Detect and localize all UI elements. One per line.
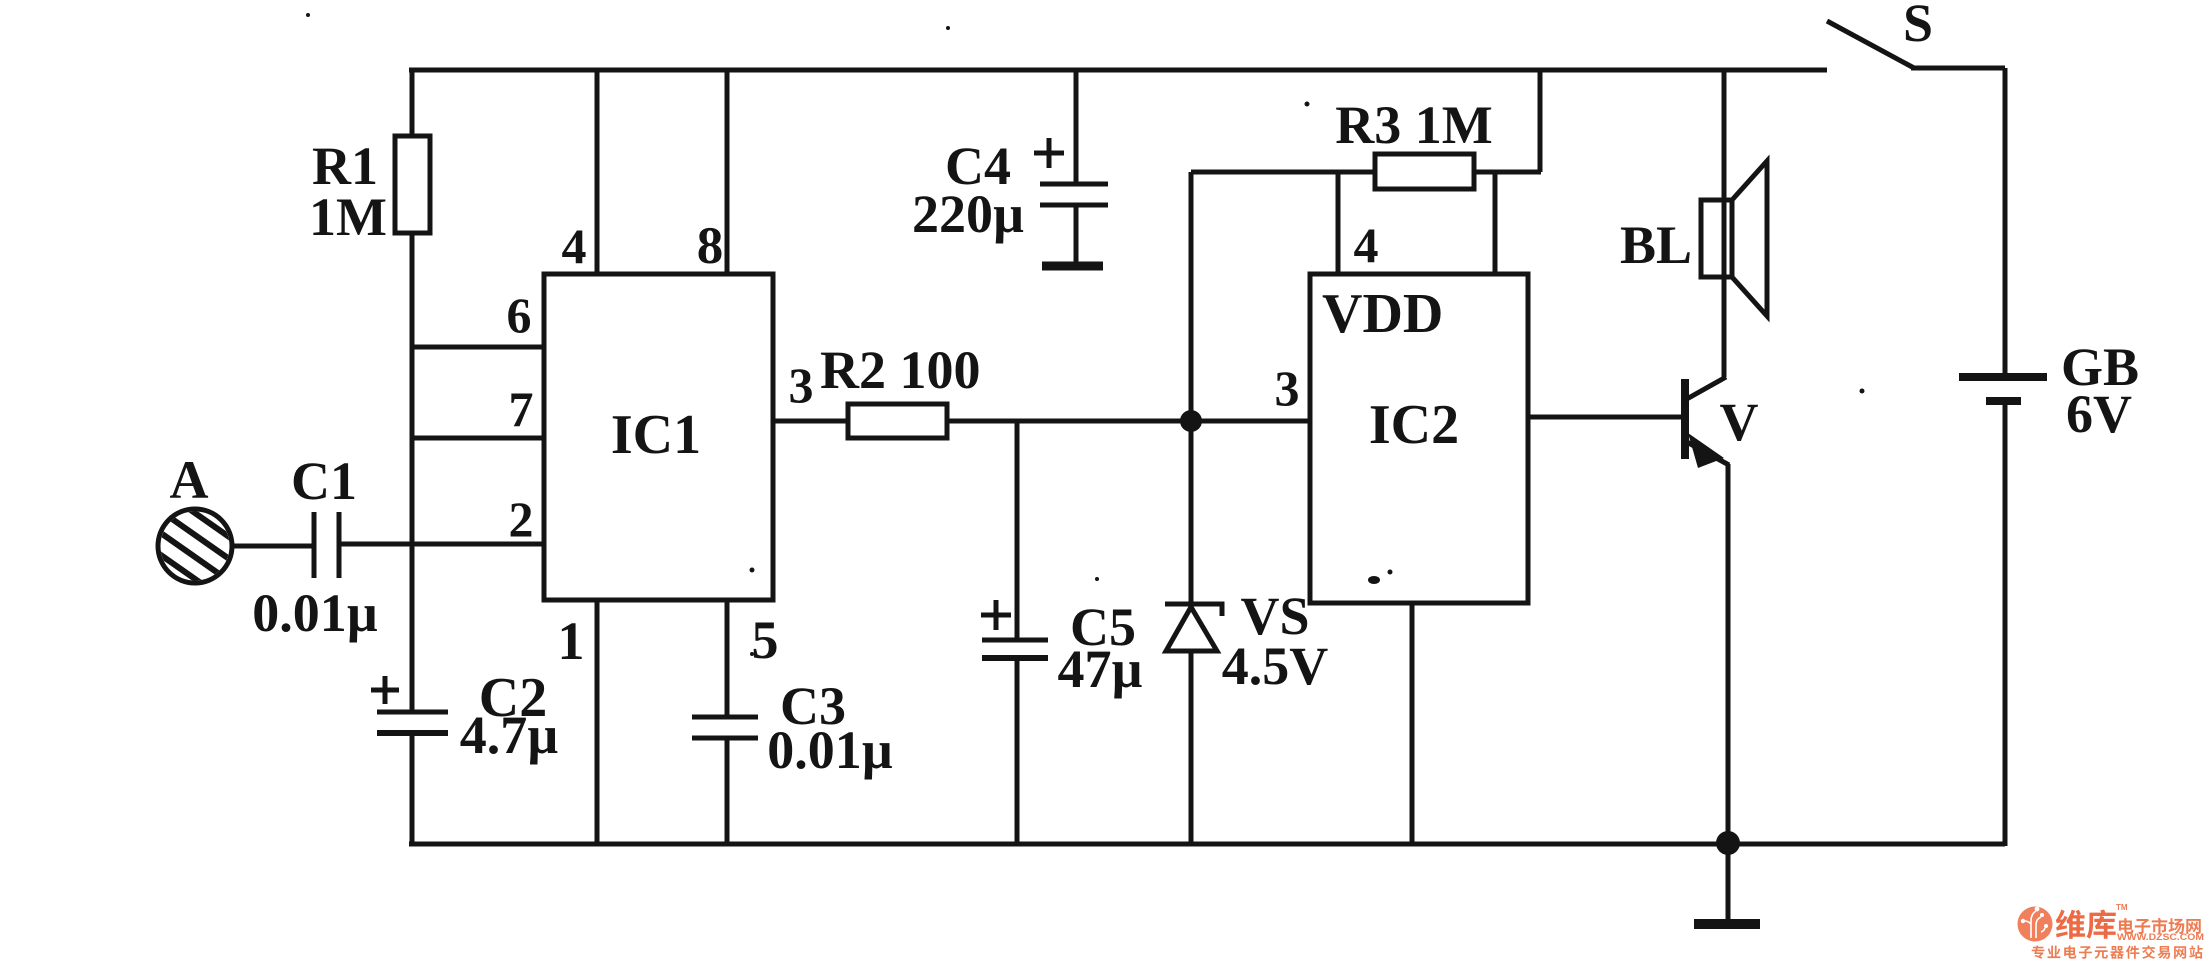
svg-text:47µ: 47µ [1057,639,1142,699]
battery GB [2003,68,2008,377]
wire switch to battery [1911,66,2005,71]
resistor R3 [1375,154,1474,189]
watermark text dianzishichangwang [2119,918,2201,934]
capacitor C3 [692,717,758,738]
wire down to IC2 top right [1493,172,1498,274]
wire battery negative to ground bus [2003,401,2008,846]
svg-text:6: 6 [507,287,532,343]
svg-text:5: 5 [752,610,779,670]
wire R3 left horizontal [1191,170,1375,175]
plus sign of C4 [1034,138,1064,168]
node junction dot at emitter/ground [1716,831,1740,855]
resistor R2 [848,404,947,438]
wire VS anode to ground bus [1189,651,1194,846]
svg-text:0.01µ: 0.01µ [252,583,378,643]
scan speck marks [306,13,1865,656]
wire left vertical from R1 down to C2 [410,233,415,712]
IC U2 (IC2) [1310,274,1528,603]
svg-text:8: 8 [697,217,724,275]
wire R3 left branch vertical [1189,172,1194,421]
svg-text:3: 3 [789,357,814,413]
node junction dot on R2 output [1180,410,1202,432]
svg-text:4.5V: 4.5V [1222,636,1329,696]
wire IC1 pin8 to top bus [725,70,730,274]
svg-text:3: 3 [1275,360,1300,416]
svg-text:BL: BL [1620,215,1692,275]
wire R3 right horizontal [1474,170,1541,175]
capacitor C1 [314,512,339,578]
wire left vertical from top bus to R1 [410,70,415,137]
wire IC2 pin4 vertical [1336,172,1341,274]
capacitor C5 (polarized) [1015,421,1020,640]
capacitor C2 (polarized) [377,712,448,733]
svg-text:IC1: IC1 [611,404,701,466]
wire IC1 pin4 to top bus [595,70,600,274]
svg-text:V: V [1720,392,1759,452]
wire C1 to IC1 pin2 [341,542,544,547]
node A (input terminal, hatched circle) [128,495,251,611]
svg-text:0.01µ: 0.01µ [767,720,893,780]
wire IC1 pin3 to R2 [773,419,848,424]
svg-text:IC2: IC2 [1369,394,1459,456]
wire IC1 pin5 to C3 [725,600,730,717]
wire C5 bottom to ground bus [1015,658,1020,846]
resistor R1 [395,136,430,233]
ground [1726,843,1731,922]
wire R3 right up to top bus [1538,70,1543,172]
capacitor C4 (polarized) [1074,70,1079,184]
plus sign of C2 [371,676,399,704]
svg-text:2: 2 [509,491,534,547]
svg-text:7: 7 [509,381,534,437]
svg-text:TM: TM [2116,903,2128,912]
wire C2 bottom to ground bus [410,733,415,846]
plus sign of C5 [981,600,1011,630]
svg-text:220µ: 220µ [912,184,1024,244]
svg-text:C1: C1 [291,451,357,511]
wire C3 bottom to ground bus [725,738,730,846]
svg-text:6V: 6V [2066,384,2132,444]
svg-text:1M: 1M [309,187,387,247]
svg-text:R3 1M: R3 1M [1335,95,1492,155]
wire top supply bus [409,68,1827,73]
svg-text:A: A [170,450,209,510]
wire collector up through speaker to top bus [1722,70,1727,377]
transistor V [1685,377,1729,468]
wire emitter down to ground junction [1726,464,1731,846]
watermark text weiku [2056,910,2116,939]
wire R2 to IC2 pin3 [947,419,1310,424]
wire IC1 pin1 to ground bus [595,600,600,846]
switch S lever [1827,21,1914,68]
svg-text:4: 4 [1354,217,1379,273]
zener diode VS [1189,421,1194,604]
wire IC2 bottom pin to ground bus [1410,603,1415,846]
svg-text:WWW.DZSC.COM: WWW.DZSC.COM [2117,932,2204,943]
svg-text:4: 4 [562,218,587,274]
wire IC1 pin6 [412,345,544,350]
wire bottom ground bus [409,842,2005,847]
wire node A to C1 [231,544,313,549]
svg-text:S: S [1903,0,1933,53]
speaker BL [1701,161,1767,316]
wire IC1 pin7 [412,436,544,441]
svg-text:VDD: VDD [1322,283,1443,345]
wire IC2 output to transistor base [1528,415,1685,420]
svg-text:1: 1 [558,611,585,671]
wire C4 negative lead [1074,205,1079,264]
svg-text:R2 100: R2 100 [820,340,981,400]
watermark logo circle [2018,907,2053,942]
IC U1 (IC1) [544,274,773,600]
ground bar of C4 [1042,262,1103,271]
svg-text:4.7µ: 4.7µ [460,705,559,765]
watermark slogan [2032,945,2203,959]
